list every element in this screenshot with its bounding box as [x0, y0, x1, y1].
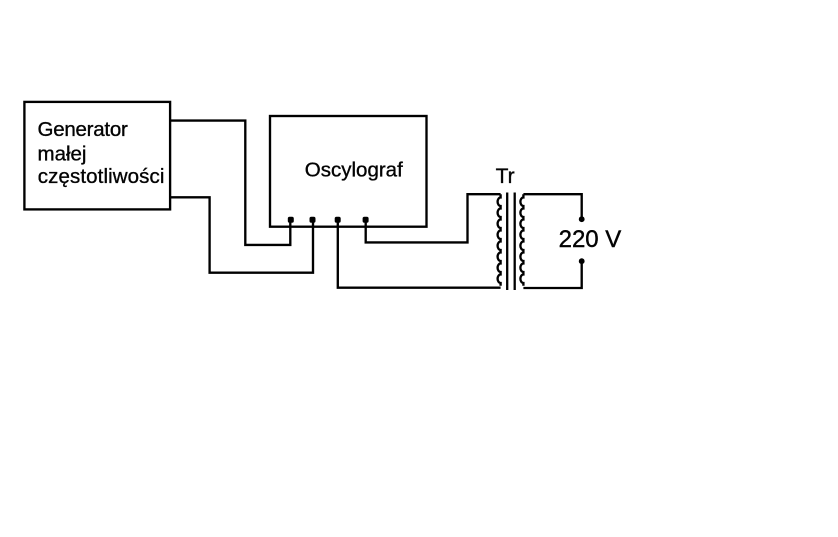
svg-text:220 V: 220 V	[559, 226, 622, 253]
svg-text:Oscylograf: Oscylograf	[305, 158, 403, 181]
svg-text:częstotliwości: częstotliwości	[38, 165, 165, 188]
svg-text:Tr: Tr	[496, 165, 515, 188]
svg-text:małej: małej	[38, 143, 87, 166]
svg-text:Generator: Generator	[38, 118, 128, 141]
